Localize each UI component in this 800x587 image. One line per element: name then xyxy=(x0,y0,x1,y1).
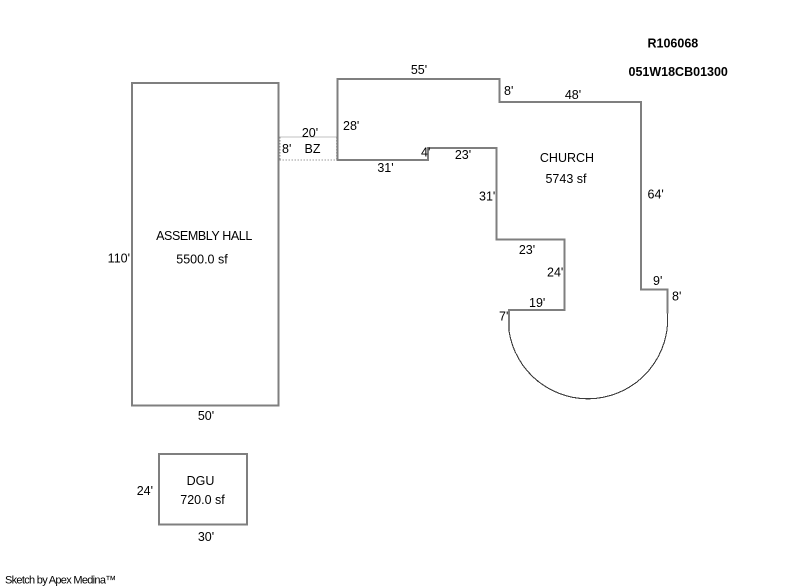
svg-text:ASSEMBLY HALL: ASSEMBLY HALL xyxy=(156,229,252,243)
svg-text:DGU: DGU xyxy=(187,474,215,488)
svg-text:5500.0 sf: 5500.0 sf xyxy=(176,253,228,267)
svg-text:30': 30' xyxy=(198,530,214,544)
svg-text:31': 31' xyxy=(479,190,495,204)
svg-text:23': 23' xyxy=(519,243,535,257)
svg-text:Sketch by Apex Medina™: Sketch by Apex Medina™ xyxy=(5,575,116,587)
svg-text:CHURCH: CHURCH xyxy=(540,151,594,165)
building CHURCH apse arc xyxy=(509,314,668,399)
svg-text:110': 110' xyxy=(108,252,130,266)
svg-text:31': 31' xyxy=(377,161,393,175)
breezeway BZ top line xyxy=(280,136,337,138)
svg-text:8': 8' xyxy=(504,84,513,98)
svg-text:R106068: R106068 xyxy=(648,37,699,51)
svg-text:23': 23' xyxy=(455,148,471,162)
svg-text:8': 8' xyxy=(282,142,291,156)
svg-text:5743 sf: 5743 sf xyxy=(545,172,587,186)
svg-text:BZ: BZ xyxy=(305,142,321,156)
svg-text:720.0 sf: 720.0 sf xyxy=(180,493,225,507)
svg-text:48': 48' xyxy=(565,88,581,102)
svg-text:24': 24' xyxy=(137,484,153,498)
svg-text:50': 50' xyxy=(198,409,214,423)
building CHURCH walls xyxy=(338,79,668,331)
svg-text:28': 28' xyxy=(343,119,359,133)
building DGU outline xyxy=(159,454,247,525)
svg-text:64': 64' xyxy=(648,188,664,202)
svg-text:8': 8' xyxy=(672,290,681,304)
svg-text:4': 4' xyxy=(421,146,430,160)
svg-text:7': 7' xyxy=(499,310,508,324)
svg-text:24': 24' xyxy=(547,266,563,280)
building ASSEMBLY HALL outline xyxy=(132,83,279,406)
svg-text:20': 20' xyxy=(302,126,318,140)
svg-text:55': 55' xyxy=(411,63,427,77)
svg-text:9': 9' xyxy=(653,274,662,288)
svg-text:19': 19' xyxy=(529,296,545,310)
breezeway BZ bottom dotted line xyxy=(280,159,337,161)
svg-text:051W18CB01300: 051W18CB01300 xyxy=(629,65,728,79)
breezeway BZ left dotted edge xyxy=(279,137,281,160)
breezeway BZ right dotted edge xyxy=(336,137,338,160)
